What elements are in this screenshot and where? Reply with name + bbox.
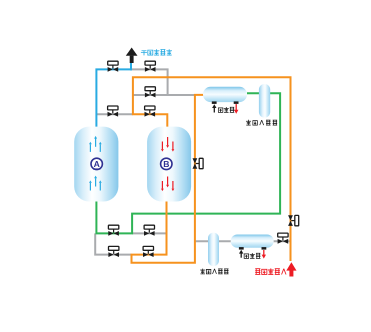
cooling water in arrow top cooler — [213, 108, 215, 113]
wire green vessel A bottom and regeneration loop to top separator — [96, 93, 280, 233]
label wet gas inlet red — [255, 268, 286, 274]
drain arrow red top cooler — [235, 104, 237, 110]
separator top — [259, 84, 270, 118]
valve L4 — [108, 225, 119, 236]
wire gray row3 left (vessel A inlet, closed) — [96, 113, 132, 115]
wire cyan stub under outlet arrow — [130, 63, 132, 71]
valve inlet riser vertical — [288, 215, 299, 226]
tag circle B — [161, 158, 172, 169]
valve R5 — [143, 246, 154, 257]
wire gray bottom chain riser to separator cooler valve — [195, 240, 291, 242]
drain arrow red bottom cooler — [263, 250, 265, 255]
cooler top — [203, 87, 247, 102]
wire orange wet gas inlet riser and top header down to row3 into vessel B — [133, 77, 291, 261]
label separator top — [246, 120, 277, 125]
label cooler top — [218, 107, 234, 112]
vessel B — [147, 127, 191, 202]
valve L5 — [108, 246, 119, 257]
cooler bottom — [231, 235, 274, 248]
dry gas outlet arrow black — [126, 48, 138, 64]
svg-text:A: A — [94, 159, 100, 169]
valve R3 — [145, 106, 156, 117]
flow marks vessel B red down arrows — [161, 137, 174, 191]
wire orange vessel B bottom through row5 jog and riser to top cooler — [132, 95, 205, 263]
valve R1 — [145, 61, 156, 72]
label dry gas outlet cyan — [141, 49, 172, 55]
valve R4 — [144, 225, 155, 236]
label cooler bottom — [244, 253, 260, 258]
cooling water in arrow bottom cooler — [240, 253, 242, 258]
wire gray row2 to cooler junction — [133, 94, 195, 96]
svg-text:B: B — [163, 159, 169, 169]
valve bottom cooler outlet — [278, 233, 289, 244]
label separator bottom — [200, 269, 228, 274]
wire gray left U row4-row5 — [95, 233, 131, 254]
nozzle stubs bottom cooler — [239, 247, 244, 250]
valve L1 — [108, 61, 119, 72]
nozzle stubs top cooler — [212, 101, 217, 104]
separator bottom — [208, 233, 219, 267]
valve L3 — [108, 106, 119, 117]
wire cyan vessel A top to dry gas outlet — [96, 69, 132, 128]
tag circle A — [91, 158, 102, 169]
wire gray row1 from dry-out junction to corner down to row2 — [131, 69, 168, 95]
valve R2 — [145, 87, 156, 98]
wire gray row4 right — [132, 232, 166, 234]
valve riser mid vertical — [193, 158, 204, 169]
flow marks vessel A cyan up arrows — [89, 136, 102, 191]
vessel A — [74, 127, 118, 202]
wet gas inlet arrow red — [286, 262, 296, 276]
